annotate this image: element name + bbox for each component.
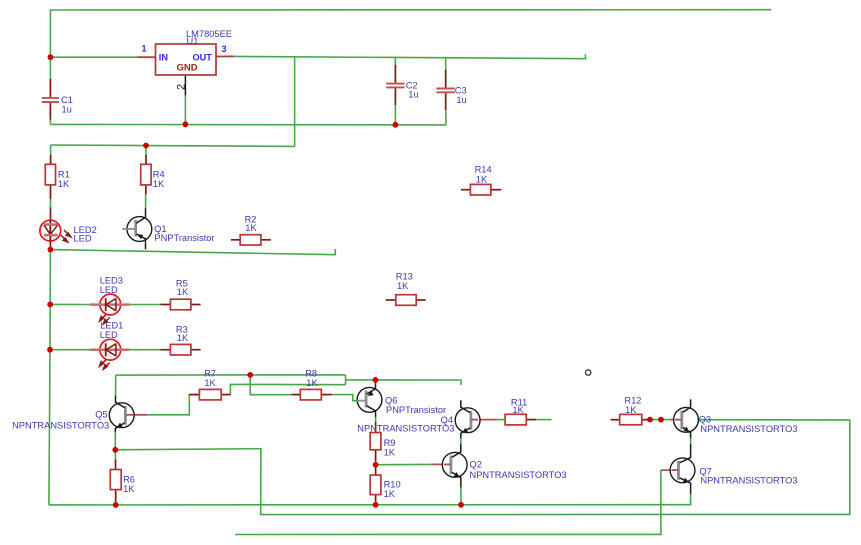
wire R9 junction to Q2 base bbox=[376, 463, 431, 465]
svg-text:U1: U1 bbox=[187, 36, 199, 46]
wire gnd rail 1 bbox=[50, 123, 446, 126]
wire Q5 base run bbox=[147, 395, 199, 415]
LED LED1 bbox=[90, 321, 130, 370]
svg-text:3: 3 bbox=[222, 44, 227, 54]
junction R12 out b bbox=[658, 417, 664, 423]
svg-text:LED: LED bbox=[100, 285, 118, 295]
wire Q2 emitter to ground rail bbox=[460, 487, 462, 505]
svg-text:R7: R7 bbox=[204, 368, 216, 378]
wire C1 upper segment bbox=[49, 57, 51, 80]
junction R4 rail2 bbox=[143, 143, 149, 149]
wire R9 bottom bbox=[375, 461, 377, 465]
LED LED2 bbox=[40, 208, 97, 250]
svg-text:1K: 1K bbox=[625, 405, 637, 415]
wire rail B bbox=[346, 380, 462, 385]
resistor R8 bbox=[291, 368, 331, 400]
U1 pin 3 lead bbox=[216, 55, 234, 57]
resistor R10 bbox=[370, 465, 400, 502]
U1 body bbox=[156, 44, 217, 75]
capacitor C2 bbox=[386, 65, 418, 105]
svg-text:1u: 1u bbox=[408, 89, 418, 99]
wire R12 to Q3 base bbox=[648, 419, 670, 421]
svg-text:NPNTRANSISTORTO3: NPNTRANSISTORTO3 bbox=[700, 475, 797, 485]
wire bottom rail 4 bbox=[235, 470, 661, 534]
svg-text:OUT: OUT bbox=[193, 53, 213, 63]
svg-text:LED: LED bbox=[100, 330, 118, 340]
resistor R5 bbox=[160, 278, 200, 310]
wire Q5 emitter segment bbox=[114, 432, 116, 450]
resistor R12 bbox=[611, 396, 648, 425]
junction R12 out a bbox=[647, 417, 653, 423]
svg-text:1K: 1K bbox=[58, 179, 70, 189]
junction C2 gnd bbox=[393, 122, 399, 128]
wire Q5 emitter east run down to rail 3 bbox=[115, 420, 850, 515]
resistor R1 bbox=[45, 155, 70, 199]
LED3 emission arrows bbox=[100, 315, 110, 324]
wire R4 bottom to Q1 collector bbox=[145, 194, 147, 208]
svg-text:NPNTRANSISTORTO3: NPNTRANSISTORTO3 bbox=[12, 420, 109, 430]
wire R8 right to Q6 base bbox=[332, 395, 358, 401]
wire Q3 emitter link bbox=[690, 438, 692, 444]
wire R11 right stub bbox=[536, 419, 552, 421]
junction VIN left bus bbox=[48, 54, 54, 60]
transistor Q6 PNP bbox=[357, 381, 447, 417]
capacitor C3 bbox=[437, 70, 467, 110]
wire Q6 collector link bbox=[375, 417, 377, 423]
svg-text:R8: R8 bbox=[305, 368, 317, 378]
svg-text:1K: 1K bbox=[384, 447, 396, 457]
wire C2 top drop bbox=[394, 57, 396, 66]
resistor R6 bbox=[110, 460, 135, 502]
transistor Q1 PNP bbox=[122, 208, 214, 249]
svg-text:1K: 1K bbox=[153, 179, 165, 189]
regulator U1 LM7805EE bbox=[138, 29, 235, 96]
wire R1 top bbox=[50, 145, 52, 156]
svg-text:Q5: Q5 bbox=[95, 410, 107, 420]
svg-text:PNPTransistor: PNPTransistor bbox=[154, 233, 214, 243]
svg-text:1K: 1K bbox=[177, 333, 189, 343]
wire R1 bottom to LED2 bbox=[50, 199, 52, 209]
junction rail B Q6 emitter bbox=[373, 377, 379, 383]
U1 pin 2 lead bbox=[184, 75, 186, 96]
junction LED2 cathode bbox=[48, 247, 54, 253]
svg-text:LED: LED bbox=[74, 233, 92, 243]
transistor Q7 NPN bbox=[661, 444, 798, 494]
wire R4 top bbox=[145, 146, 147, 156]
transistor Q2 NPN bbox=[431, 444, 567, 488]
resistor R3 bbox=[160, 324, 200, 355]
resistor R13 bbox=[386, 272, 426, 306]
U1 pin 1 lead bbox=[138, 56, 156, 58]
LED2 emission arrows bbox=[61, 230, 71, 242]
transistor Q5 NPN bbox=[12, 396, 147, 432]
wire C3 top drop bbox=[445, 57, 447, 71]
svg-text:Q2: Q2 bbox=[470, 459, 482, 469]
svg-text:IN: IN bbox=[159, 53, 169, 63]
junction Q2 emitter ground bbox=[458, 502, 464, 508]
transistor Q4 NPN bbox=[357, 400, 505, 438]
wire Q5 emitter junction to R6 bbox=[114, 450, 116, 460]
wire left bus down bbox=[49, 250, 51, 505]
wire C2 bottom bbox=[394, 104, 396, 125]
svg-text:1K: 1K bbox=[177, 287, 189, 297]
wire rail B end drop bbox=[460, 438, 462, 443]
wire R7 right riser bbox=[230, 384, 345, 394]
wire LED3 to R5 bbox=[129, 304, 160, 306]
wire LED1 left bbox=[50, 349, 90, 351]
junction R6 ground bbox=[113, 502, 119, 508]
capacitor C1 bbox=[42, 79, 73, 120]
junction Q5 emitter bbox=[112, 447, 118, 453]
svg-text:1u: 1u bbox=[456, 95, 466, 105]
resistor R11 bbox=[505, 397, 536, 425]
svg-text:1K: 1K bbox=[476, 175, 488, 185]
wire LED2 cathode junction slant run bbox=[50, 249, 335, 255]
wire R10 bottom bbox=[375, 501, 377, 505]
transistor Q3 NPN bbox=[670, 399, 798, 438]
svg-text:1K: 1K bbox=[512, 405, 524, 415]
svg-text:1u: 1u bbox=[62, 104, 72, 114]
junction R9 R10 Q2 base bbox=[373, 462, 379, 468]
junction U1 pin2 gnd bbox=[183, 121, 189, 127]
wire junction drop to R8 row bbox=[250, 375, 291, 395]
resistor R14 bbox=[461, 165, 501, 196]
wire Q5 collector drop bbox=[115, 375, 117, 396]
resistor R4 bbox=[141, 155, 165, 195]
wire rail A bbox=[116, 374, 346, 376]
svg-text:Q6: Q6 bbox=[385, 395, 397, 405]
svg-text:R14: R14 bbox=[475, 165, 492, 175]
junction R10 ground bbox=[373, 502, 379, 508]
svg-text:NPNTRANSISTORTO3: NPNTRANSISTORTO3 bbox=[470, 470, 567, 480]
svg-text:NPNTRANSISTORTO3: NPNTRANSISTORTO3 bbox=[357, 424, 454, 434]
resistor R2 bbox=[231, 214, 271, 245]
svg-text:1K: 1K bbox=[204, 378, 216, 388]
wire LED1 to R3 bbox=[129, 349, 160, 351]
wire C1 lower segment to gnd rail bbox=[49, 119, 51, 124]
resistor R7 bbox=[189, 368, 230, 400]
svg-text:1K: 1K bbox=[245, 223, 257, 233]
wire R6 bottom bbox=[115, 501, 117, 505]
svg-text:1K: 1K bbox=[384, 489, 396, 499]
svg-text:NPNTRANSISTORTO3: NPNTRANSISTORTO3 bbox=[700, 424, 797, 434]
svg-text:1K: 1K bbox=[397, 281, 409, 291]
junction rail A bbox=[247, 372, 253, 378]
junction LED1 bus bbox=[47, 347, 53, 353]
wire Q7 emitter to ground rail bbox=[690, 494, 692, 505]
svg-text:1K: 1K bbox=[123, 484, 135, 494]
LED LED3 bbox=[90, 276, 130, 324]
svg-text:2: 2 bbox=[176, 84, 188, 90]
LED1 emission arrows bbox=[100, 360, 110, 369]
wire U1 OUT run bbox=[234, 54, 586, 59]
wire ground rail main bbox=[49, 499, 691, 505]
wire rail 2 bbox=[51, 145, 295, 146]
wire U1 pin2 drop bbox=[184, 96, 186, 125]
wire C3 bottom bbox=[445, 109, 447, 125]
node open terminal bbox=[586, 370, 591, 375]
svg-text:C3: C3 bbox=[455, 86, 467, 96]
svg-text:1: 1 bbox=[142, 44, 147, 54]
wire top rail bbox=[50, 10, 771, 58]
wire Q3 east run bbox=[690, 419, 850, 421]
wire VIN horizontal to U1 pin1 bbox=[50, 56, 137, 58]
svg-text:1K: 1K bbox=[306, 378, 318, 388]
wire rail A-B jog bbox=[345, 375, 347, 385]
wire LED3 left bbox=[50, 303, 89, 305]
junction LED3 bus bbox=[47, 302, 53, 308]
svg-text:PNPTransistor: PNPTransistor bbox=[386, 405, 446, 415]
resistor R9 bbox=[370, 422, 396, 462]
wire OUT to rail2 vertical bbox=[294, 57, 296, 147]
svg-text:GND: GND bbox=[177, 63, 198, 74]
